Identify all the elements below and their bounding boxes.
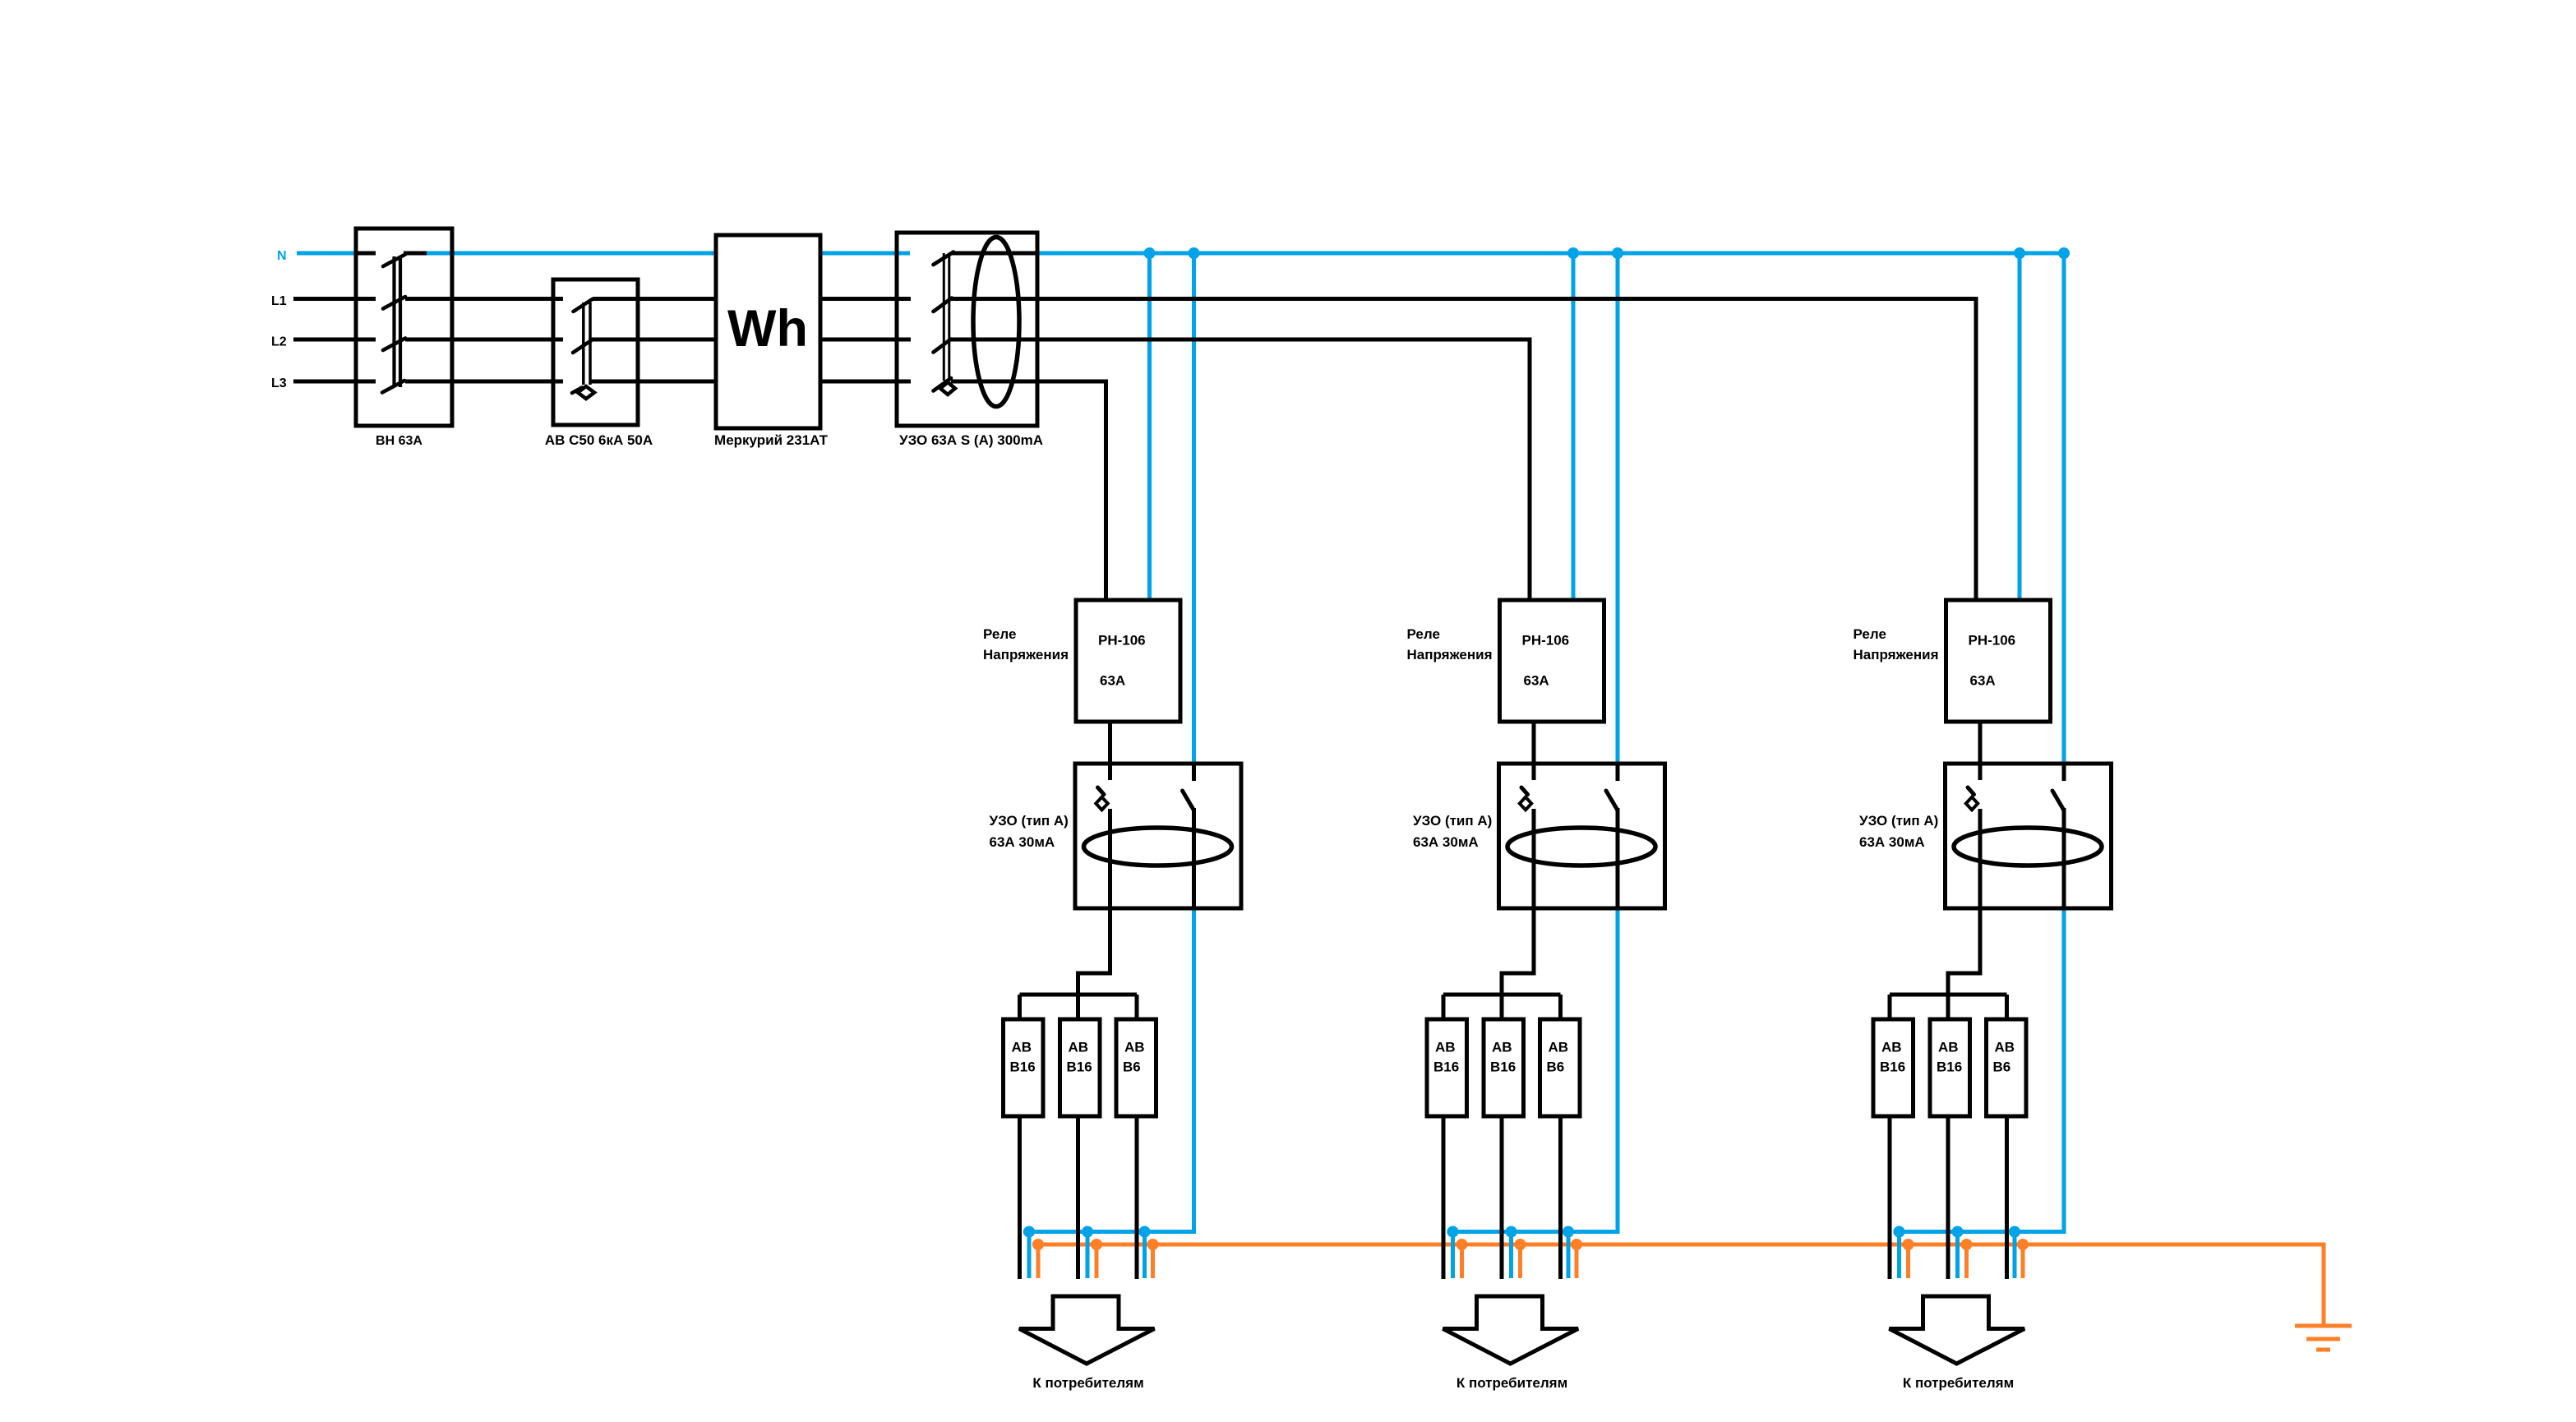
wire N outlet 3 branch 3 bbox=[2013, 1232, 2017, 1279]
wire L2 QS1 to QF0 bbox=[405, 338, 563, 342]
RCD QD3 phase trip diamond bbox=[1520, 797, 1531, 810]
svg-text:К потребителям: К потребителям bbox=[1903, 1375, 2014, 1391]
wire RCD QD4 phase output jog bbox=[1948, 908, 1980, 995]
wire breaker QF12 output bbox=[1076, 1116, 1080, 1279]
junction PE outlet 1 branch 3 bbox=[1903, 1239, 1914, 1250]
RCD QD4 toroid bbox=[1954, 828, 2102, 866]
breaker QF11 АВ В16 box bbox=[1004, 1019, 1044, 1116]
arrow to consumers branch 1 bbox=[1019, 1296, 1155, 1364]
junction PE outlet 2 branch 2 bbox=[1515, 1239, 1526, 1250]
wire breaker QF23 output bbox=[1558, 1116, 1563, 1279]
junction N outlet 1 branch 3 bbox=[1894, 1226, 1905, 1238]
wire PE outlet 3 branch 3 bbox=[2021, 1244, 2025, 1278]
junction PE outlet 3 branch 3 bbox=[2017, 1239, 2029, 1250]
RCD QD1 pole N blade bbox=[934, 252, 954, 265]
wire bus drop to breaker QF32 bbox=[1946, 995, 1950, 1021]
RCD QD2 phase input stub bbox=[1108, 764, 1112, 780]
RCD QD2 toroid bbox=[1084, 828, 1232, 866]
wire N outlet 1 branch 2 bbox=[1451, 1232, 1455, 1279]
wire N outlet 2 branch 2 bbox=[1509, 1232, 1513, 1279]
svg-text:L3: L3 bbox=[271, 376, 287, 390]
junction PE outlet 1 branch 2 bbox=[1457, 1239, 1468, 1250]
wire L3 from RCD QD1 to branch 1 drop bbox=[951, 381, 1106, 600]
breaker QF23 АВ В6 box bbox=[1540, 1019, 1581, 1116]
voltage relay KV1 РН-106 box bbox=[1076, 600, 1180, 722]
RCD QD4 УЗО тип А box bbox=[1946, 764, 2112, 908]
breaker QF0 trip diamond bbox=[578, 386, 594, 399]
wire distribution bus branch 2 bbox=[1443, 993, 1561, 997]
RCD QD1 trip diamond bbox=[940, 382, 955, 395]
RCD QD4 phase trip diamond bbox=[1966, 797, 1978, 810]
wire L1 QF0 to meter bbox=[593, 297, 717, 301]
RCD QD3 phase pole wire bbox=[1532, 809, 1536, 908]
wire bus drop to breaker QF33 bbox=[2005, 995, 2009, 1021]
wire bus drop to breaker QF21 bbox=[1442, 995, 1446, 1021]
ground PE earth electrode bbox=[2295, 1326, 2352, 1350]
wire PE outlet 3 branch 2 bbox=[1575, 1244, 1579, 1278]
breaker QF0 АВ С50 box bbox=[553, 279, 638, 425]
RCD QD2 neutral pole wire bbox=[1192, 808, 1196, 908]
wire breaker QF33 output bbox=[2005, 1116, 2009, 1279]
breaker QF0 pole L1 blade bbox=[574, 299, 593, 312]
svg-text:К потребителям: К потребителям bbox=[1457, 1375, 1567, 1391]
RCD QD1 linkage bar bbox=[944, 253, 949, 381]
svg-text:УЗО 63А S (А) 300mA: УЗО 63А S (А) 300mA bbox=[899, 432, 1043, 448]
wire bus drop to breaker QF31 bbox=[1888, 995, 1892, 1021]
junction N outlet 2 branch 3 bbox=[1952, 1226, 1964, 1238]
wire bus drop to breaker QF22 bbox=[1500, 995, 1504, 1021]
wire N mini bus branch 3 bbox=[1894, 1230, 2065, 1232]
junction N outlet 1 branch 1 bbox=[1023, 1226, 1035, 1238]
RCD QD2 phase pole wire bbox=[1108, 809, 1112, 908]
wire L2 from RCD QD1 to branch 2 drop bbox=[951, 339, 1530, 600]
wire breaker QF11 output bbox=[1018, 1116, 1022, 1279]
RCD QD2 phase blade bbox=[1098, 787, 1105, 795]
wire L3 QS1 to QF0 bbox=[405, 380, 563, 384]
wire N outlet 3 branch 1 bbox=[1143, 1232, 1147, 1279]
junction PE outlet 2 branch 1 bbox=[1091, 1239, 1102, 1250]
junction N to RCD branch 1 bbox=[1189, 247, 1200, 259]
junction N outlet 3 branch 1 bbox=[1139, 1226, 1151, 1238]
wire N outlet 2 branch 3 bbox=[1955, 1232, 1960, 1279]
svg-text:РН-106: РН-106 bbox=[1098, 633, 1146, 649]
wire L2 meter to RCD QD1 bbox=[819, 338, 911, 342]
switch QS1 ВН 63А box bbox=[356, 229, 452, 426]
wire breaker QF31 output bbox=[1888, 1116, 1892, 1279]
wire N bus from RCD QD1 to branch 3 bbox=[1037, 252, 2064, 256]
wire relay KV1 output to RCD QD2 bbox=[1108, 722, 1112, 764]
breaker QF31 АВ В16 box bbox=[1873, 1019, 1914, 1116]
junction PE outlet 2 branch 3 bbox=[1961, 1239, 1973, 1250]
RCD QD4 neutral blade bbox=[2052, 791, 2064, 810]
svg-text:N: N bbox=[277, 249, 287, 263]
wire L1 meter to RCD QD1 bbox=[819, 297, 911, 301]
svg-text:L1: L1 bbox=[271, 294, 287, 308]
junction N to relay branch 2 bbox=[1567, 247, 1579, 259]
wire PE outlet 2 branch 1 bbox=[1095, 1244, 1099, 1278]
switch QS1 pole N input stub bbox=[356, 252, 376, 256]
wire PE outlet 1 branch 1 bbox=[1036, 1244, 1041, 1278]
wire distribution bus branch 3 bbox=[1890, 993, 2007, 997]
wire breaker QF21 output bbox=[1442, 1116, 1446, 1279]
junction N outlet 2 branch 1 bbox=[1082, 1226, 1093, 1238]
breaker QF0 pole L2 blade bbox=[573, 340, 592, 353]
svg-text:РН-106: РН-106 bbox=[1522, 633, 1570, 649]
breaker QF13 АВ В6 box bbox=[1116, 1019, 1156, 1116]
svg-text:Wh: Wh bbox=[727, 300, 808, 358]
voltage relay KV2 РН-106 box bbox=[1500, 600, 1604, 722]
wire relay KV2 output to RCD QD3 bbox=[1532, 722, 1536, 764]
RCD QD3 neutral input stub bbox=[1616, 764, 1620, 781]
wire N from meter to RCD QD1 bbox=[819, 252, 910, 256]
wire bus drop to breaker QF23 bbox=[1558, 995, 1563, 1021]
RCD QD2 neutral blade bbox=[1183, 791, 1194, 810]
RCD QD3 phase input stub bbox=[1532, 764, 1536, 780]
breaker QF0 linkage bar bbox=[584, 302, 590, 385]
wire bus drop to breaker QF12 bbox=[1076, 995, 1080, 1021]
RCD QD4 neutral pole wire bbox=[2062, 808, 2066, 908]
voltage relay KV3 РН-106 box bbox=[1946, 600, 2051, 722]
wire RCD QD3 phase output jog bbox=[1502, 908, 1534, 995]
RCD QD3 phase blade bbox=[1521, 787, 1528, 795]
wire RCD QD2 phase output jog bbox=[1078, 908, 1110, 995]
switch QS1 pole L1 blade bbox=[383, 297, 405, 309]
junction PE outlet 1 branch 1 bbox=[1032, 1239, 1044, 1250]
RCD QD3 УЗО тип А box bbox=[1499, 764, 1665, 908]
wire N drop to relay KV1 bbox=[1147, 253, 1152, 600]
wire N mini bus branch 1 bbox=[1023, 1230, 1194, 1232]
junction N to RCD branch 2 bbox=[1612, 247, 1623, 259]
wire L1 QS1 to QF0 bbox=[405, 297, 563, 301]
wire PE outlet 1 branch 2 bbox=[1460, 1244, 1464, 1278]
wire N outlet 1 branch 3 bbox=[1897, 1232, 1901, 1279]
RCD QD4 neutral input stub bbox=[2062, 764, 2066, 781]
junction N to relay branch 3 bbox=[2014, 247, 2025, 259]
svg-text:63А: 63А bbox=[1100, 673, 1125, 689]
junction PE outlet 3 branch 2 bbox=[1571, 1239, 1582, 1250]
RCD QD1 toroid bbox=[973, 238, 1019, 407]
junction N outlet 3 branch 2 bbox=[1563, 1226, 1574, 1238]
wire N outlet 3 branch 2 bbox=[1567, 1232, 1571, 1279]
breaker QF33 АВ В6 box bbox=[1987, 1019, 2027, 1116]
junction N outlet 1 branch 2 bbox=[1447, 1226, 1459, 1238]
wire N outlet 2 branch 1 bbox=[1086, 1232, 1090, 1279]
wire N from label to switch QS1 bbox=[297, 252, 357, 256]
arrow to consumers branch 3 bbox=[1890, 1296, 2025, 1364]
RCD QD4 phase blade bbox=[1968, 787, 1974, 795]
wire N drop to RCD QD2 bbox=[1192, 253, 1196, 764]
wire bus drop to breaker QF13 bbox=[1135, 995, 1139, 1021]
wire L1 from RCD QD1 to branch 3 drop bbox=[952, 299, 1977, 601]
wire N from QS1 to meter bbox=[427, 252, 717, 256]
wire L2 QF0 to meter bbox=[590, 338, 717, 342]
wire relay KV3 output to RCD QD4 bbox=[1978, 722, 1983, 764]
wire N drop to RCD QD3 bbox=[1616, 253, 1620, 764]
svg-text:63А: 63А bbox=[1524, 673, 1549, 689]
RCD QD1 pole L1 blade bbox=[934, 298, 953, 312]
RCD QD4 phase pole wire bbox=[1978, 809, 1983, 908]
svg-text:L2: L2 bbox=[271, 335, 287, 349]
wire N return drop branch 1 bbox=[1192, 908, 1196, 1230]
wire bus drop to breaker QF11 bbox=[1018, 995, 1022, 1021]
svg-text:63А: 63А bbox=[1970, 673, 1996, 689]
RCD QD3 neutral blade bbox=[1606, 791, 1618, 810]
svg-text:Меркурий 231АТ: Меркурий 231АТ bbox=[714, 432, 829, 448]
svg-text:АВ С50 6кА 50А: АВ С50 6кА 50А bbox=[545, 432, 653, 448]
meter PI1 Меркурий 231АТ box bbox=[716, 235, 820, 428]
wire breaker QF13 output bbox=[1135, 1116, 1139, 1279]
wire breaker QF32 output bbox=[1946, 1116, 1950, 1279]
wire N return drop branch 2 bbox=[1616, 908, 1620, 1230]
wire breaker QF22 output bbox=[1500, 1116, 1504, 1279]
junction N outlet 2 branch 2 bbox=[1506, 1226, 1517, 1238]
wire N return drop branch 3 bbox=[2062, 908, 2066, 1230]
wire L2 from label into QS1 bbox=[293, 338, 376, 342]
svg-text:РН-106: РН-106 bbox=[1969, 633, 2016, 649]
wire PE outlet 3 branch 1 bbox=[1151, 1244, 1155, 1278]
switch QS1 pole L2 blade bbox=[383, 339, 405, 351]
RCD QD1 pole L3 blade bbox=[934, 378, 952, 391]
switch QS1 pole L3 blade bbox=[382, 381, 404, 393]
wire L3 QF0 to meter bbox=[591, 380, 717, 384]
breaker QF12 АВ В16 box bbox=[1060, 1019, 1101, 1116]
switch QS1 pole N output stub bbox=[404, 252, 427, 256]
svg-text:ВН 63А: ВН 63А bbox=[376, 434, 422, 448]
wire N drop to relay KV3 bbox=[2018, 253, 2022, 600]
wire L3 meter to RCD QD1 bbox=[819, 380, 911, 384]
wire N drop to relay KV2 bbox=[1572, 253, 1576, 600]
wire N mini bus branch 2 bbox=[1447, 1230, 1618, 1232]
switch QS1 pole N blade bbox=[383, 255, 405, 267]
junction N to relay branch 1 bbox=[1144, 247, 1156, 259]
junction N outlet 3 branch 3 bbox=[2009, 1226, 2020, 1238]
svg-text:К потребителям: К потребителям bbox=[1032, 1375, 1143, 1391]
wire L3 from label into QS1 bbox=[293, 380, 376, 384]
wire L1 from label into QS1 bbox=[293, 297, 376, 301]
switch QS1 linkage bar bbox=[395, 256, 401, 387]
wire PE outlet 2 branch 3 bbox=[1964, 1244, 1969, 1278]
breaker QF32 АВ В16 box bbox=[1930, 1019, 1970, 1116]
arrow to consumers branch 2 bbox=[1443, 1296, 1579, 1364]
wire PE outlet 2 branch 2 bbox=[1518, 1244, 1522, 1278]
RCD QD3 toroid bbox=[1507, 828, 1655, 866]
RCD QD1 pole L2 blade bbox=[934, 339, 952, 353]
RCD QD1 УЗО 63А S box bbox=[897, 233, 1037, 426]
RCD QD1 pole N output stub bbox=[952, 252, 1037, 256]
wire PE bus to earth electrode bbox=[1032, 1244, 2324, 1326]
junction N to RCD branch 3 bbox=[2058, 247, 2070, 259]
RCD QD2 УЗО тип А box bbox=[1075, 764, 1241, 908]
wire PE outlet 1 branch 3 bbox=[1906, 1244, 1910, 1278]
breaker QF0 pole L3 blade bbox=[572, 388, 582, 394]
breaker QF22 АВ В16 box bbox=[1484, 1019, 1524, 1116]
junction PE outlet 3 branch 1 bbox=[1147, 1239, 1159, 1250]
RCD QD3 neutral pole wire bbox=[1616, 808, 1620, 908]
wire distribution bus branch 1 bbox=[1020, 993, 1138, 997]
RCD QD4 phase input stub bbox=[1978, 764, 1983, 780]
wire N outlet 1 branch 1 bbox=[1027, 1232, 1032, 1279]
RCD QD2 phase trip diamond bbox=[1096, 797, 1107, 810]
RCD QD2 neutral input stub bbox=[1192, 764, 1196, 781]
wire N drop to RCD QD4 bbox=[2062, 253, 2066, 764]
breaker QF21 АВ В16 box bbox=[1427, 1019, 1467, 1116]
